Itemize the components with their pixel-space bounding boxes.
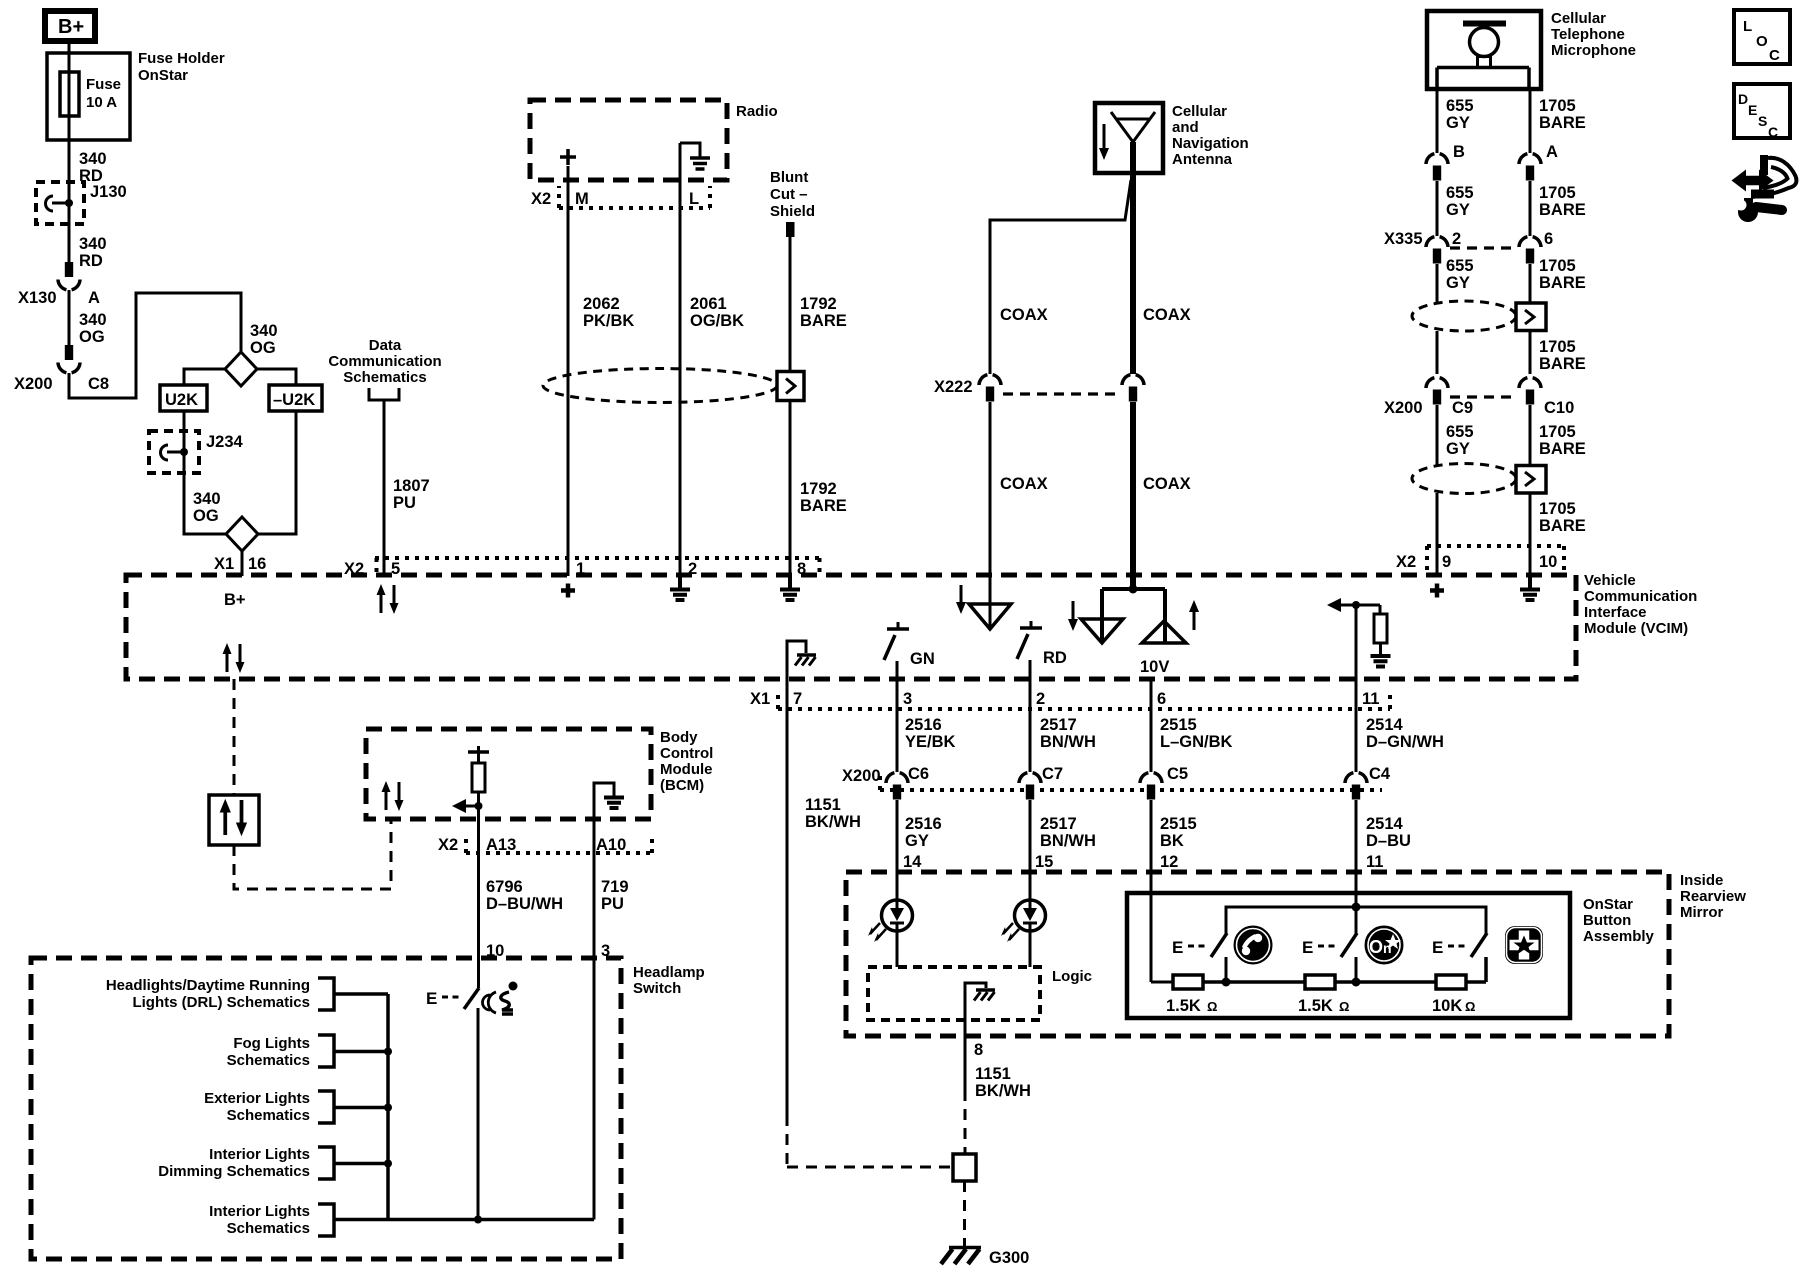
svg-text:1705: 1705: [1539, 97, 1576, 115]
svg-text:719: 719: [601, 878, 629, 896]
svg-text:Body: Body: [660, 729, 698, 746]
svg-text:Shield: Shield: [770, 203, 815, 220]
svg-text:C4: C4: [1369, 765, 1391, 783]
svg-text:and: and: [1172, 119, 1199, 136]
svg-text:1705: 1705: [1539, 338, 1576, 356]
wire 340 OG: [69, 290, 107, 346]
svg-text:Rearview: Rearview: [1680, 888, 1746, 905]
svg-text:Lights (DRL) Schematics: Lights (DRL) Schematics: [132, 994, 310, 1011]
svg-text:L: L: [1743, 18, 1752, 35]
svg-text:Fuse: Fuse: [86, 76, 121, 93]
svg-text:GY: GY: [1446, 440, 1470, 458]
connector X2 BCM pins A13,A10: [438, 835, 652, 854]
svg-text:BN/WH: BN/WH: [1040, 733, 1096, 751]
fuse F 10A: [60, 72, 121, 116]
svg-text:C7: C7: [1042, 765, 1063, 783]
svg-text:2515: 2515: [1160, 716, 1197, 734]
icon phone: [1234, 926, 1272, 964]
svg-text:Mirror: Mirror: [1680, 904, 1724, 921]
wire 719 PU: [594, 853, 629, 1220]
shield drain box mic 1: [1516, 303, 1546, 331]
svg-text:Schematics: Schematics: [343, 369, 426, 386]
wire LED GN to logic: [896, 931, 899, 967]
svg-text:340: 340: [79, 311, 107, 329]
svg-text:2516: 2516: [905, 815, 942, 833]
svg-text:Button: Button: [1583, 912, 1631, 929]
svg-text:X2: X2: [1396, 553, 1416, 571]
svg-text:Schematics: Schematics: [227, 1052, 310, 1069]
svg-text:Fog Lights: Fog Lights: [233, 1035, 310, 1052]
svg-text:C6: C6: [908, 765, 929, 783]
resistor 1.5K second: [1298, 975, 1349, 1015]
fuse holder box: [47, 50, 225, 140]
connector X200 pin C6: [886, 765, 929, 800]
svg-text:B+: B+: [224, 591, 246, 609]
wire 2517 BN/WH lower: [1030, 800, 1096, 900]
wire 655 GY seg3: [1437, 257, 1474, 303]
svg-text:9: 9: [1442, 553, 1451, 571]
VCIM coax junction bar: [1102, 585, 1165, 644]
svg-text:M: M: [575, 190, 589, 208]
svg-text:YE/BK: YE/BK: [905, 733, 956, 751]
svg-text:C10: C10: [1544, 399, 1574, 417]
splice J130: [36, 182, 127, 224]
svg-text:O: O: [1756, 33, 1768, 50]
svg-text:X335: X335: [1384, 230, 1423, 248]
svg-text:E: E: [1432, 938, 1443, 957]
resistor 1.5K first: [1166, 975, 1217, 1015]
wire 2514 D-GN/WH: [1356, 709, 1444, 772]
wire 1705 BARE seg3: [1530, 257, 1586, 303]
VCIM antenna terminal left (down triangle): [969, 604, 1011, 629]
VCIM chassis ground at pin 7: [787, 641, 816, 679]
svg-text:X1: X1: [214, 555, 234, 573]
VCIM + terminal at pin 1: [561, 584, 575, 598]
wire LED RD to logic: [1029, 931, 1032, 967]
svg-text:1.5K: 1.5K: [1298, 997, 1333, 1015]
BCM bidirectional arrows: [382, 781, 404, 811]
svg-text:Cellular: Cellular: [1551, 10, 1606, 27]
svg-text:S: S: [1758, 113, 1767, 129]
wire 1705 BARE seg5: [1530, 405, 1586, 465]
svg-text:BK: BK: [1160, 832, 1184, 850]
svg-text:A13: A13: [486, 836, 516, 854]
svg-text:E: E: [1172, 938, 1183, 957]
svg-text:D: D: [1738, 91, 1748, 107]
wire 1705 BARE seg2: [1530, 181, 1586, 236]
svg-text:B: B: [1453, 143, 1465, 161]
svg-text:340: 340: [193, 490, 221, 508]
splice S1 340 OG: [225, 322, 278, 386]
svg-text:GY: GY: [1446, 274, 1470, 292]
radio + terminal: [560, 149, 576, 165]
schematic ref Interior Lights: [209, 1203, 334, 1237]
svg-text:3: 3: [903, 690, 912, 708]
wire 2514 D-BU: [1356, 800, 1411, 934]
dashed wire B+ to interface box: [233, 679, 236, 795]
svg-text:B+: B+: [58, 16, 84, 38]
svg-text:1705: 1705: [1539, 423, 1576, 441]
svg-text:X222: X222: [934, 378, 973, 396]
svg-text:GY: GY: [1446, 201, 1470, 219]
connector X200 pin C5: [1140, 765, 1188, 800]
svg-text:OG: OG: [193, 507, 219, 525]
coax wire left lower: [990, 402, 1048, 629]
connector X1 row: [750, 690, 1390, 709]
wire 2062 PK/BK: [568, 166, 634, 576]
svg-text:11: 11: [1362, 690, 1379, 708]
schematic ref Interior Lights Dimming: [158, 1146, 388, 1180]
radio box: [530, 100, 778, 180]
svg-text:E: E: [1748, 102, 1757, 118]
antenna module box: [1095, 103, 1249, 173]
svg-text:BARE: BARE: [1539, 440, 1586, 458]
svg-text:1705: 1705: [1539, 184, 1576, 202]
logic box: [868, 967, 1092, 1020]
svg-text:2514: 2514: [1366, 716, 1404, 734]
svg-text:COAX: COAX: [1000, 306, 1048, 324]
connector X335 pin 6: [1450, 230, 1553, 264]
wire S2 to VCIM X1-16: [214, 551, 266, 576]
svg-text:Antenna: Antenna: [1172, 151, 1233, 168]
svg-text:Interface: Interface: [1584, 604, 1647, 621]
svg-text:BARE: BARE: [800, 497, 847, 515]
dashed wire 1151 left branch: [787, 1115, 953, 1167]
VCIM + terminal at pin 9: [1430, 584, 1444, 598]
svg-text:Navigation: Navigation: [1172, 135, 1249, 152]
svg-text:BARE: BARE: [800, 312, 847, 330]
svg-text:A: A: [1546, 143, 1558, 161]
svg-text:L: L: [689, 190, 699, 208]
connector X200 pin C9: [1384, 378, 1473, 417]
svg-text:10: 10: [1539, 553, 1557, 571]
connector X200 pin C7: [1019, 765, 1063, 800]
wire 2515 BK: [1151, 800, 1197, 982]
svg-text:2: 2: [1036, 690, 1045, 708]
svg-text:Communication: Communication: [1584, 588, 1697, 605]
radio internal ground: [680, 143, 710, 169]
LED indicator GN: [868, 900, 913, 942]
shield drain box: [777, 372, 804, 401]
wire 6796 D-BU/WH: [479, 853, 564, 988]
wire splice to U2K: [184, 369, 225, 385]
wire GN to pin 3: [896, 661, 899, 709]
wire 1705 BARE seg6: [1530, 493, 1586, 576]
VCIM RD output symbol: [1017, 621, 1067, 667]
connector X2 row (pins 5,1,2,8): [344, 558, 821, 578]
svg-text:D–GN/WH: D–GN/WH: [1366, 733, 1444, 751]
VCIM bidirectional arrows at B+: [223, 643, 245, 673]
svg-text:340: 340: [79, 150, 107, 168]
icon LOC box: [1734, 10, 1790, 64]
svg-text:–U2K: –U2K: [273, 391, 315, 409]
wire 2515 L-GN/BK: [1151, 709, 1233, 772]
svg-text:COAX: COAX: [1000, 475, 1048, 493]
splice S2: [226, 517, 258, 551]
net label -U2K: [269, 385, 322, 411]
icon repair arrow: [1732, 155, 1797, 199]
shield ellipse mic 2: [1412, 464, 1516, 494]
svg-text:Telephone: Telephone: [1551, 26, 1625, 43]
wire 2516 GY: [897, 800, 942, 900]
svg-text:GY: GY: [1446, 114, 1470, 132]
svg-text:2: 2: [1452, 230, 1461, 248]
svg-text:Ω: Ω: [1207, 999, 1217, 1014]
button top rail: [1226, 903, 1486, 935]
switch SW3 emergency: [1432, 933, 1487, 982]
VCIM down arrow left: [956, 585, 966, 614]
dashed wire interface box to BCM: [234, 819, 391, 889]
svg-text:655: 655: [1446, 184, 1474, 202]
svg-text:1151: 1151: [975, 1065, 1011, 1083]
svg-text:2517: 2517: [1040, 716, 1077, 734]
svg-text:Cut –: Cut –: [770, 186, 808, 203]
svg-text:14: 14: [903, 853, 922, 871]
svg-text:Cellular: Cellular: [1172, 103, 1227, 120]
svg-text:D–BU: D–BU: [1366, 832, 1411, 850]
VCIM GN output symbol: [884, 622, 935, 668]
OnStar button assembly box: [1127, 893, 1655, 1018]
svg-text:Data: Data: [369, 337, 402, 354]
VCIM up arrow: [1189, 600, 1199, 630]
microphone symbol: [1437, 21, 1529, 90]
connector pin A: [1519, 143, 1558, 181]
svg-text:Module (VCIM): Module (VCIM): [1584, 620, 1688, 637]
svg-text:2515: 2515: [1160, 815, 1197, 833]
svg-text:16: 16: [248, 555, 266, 573]
svg-text:1792: 1792: [800, 480, 837, 498]
BCM module border: [366, 729, 713, 819]
connector X222 right: [934, 375, 1144, 402]
shield ellipse around radio wires: [543, 369, 777, 403]
svg-text:2516: 2516: [905, 716, 942, 734]
svg-text:RD: RD: [79, 252, 103, 270]
svg-text:COAX: COAX: [1143, 306, 1191, 324]
svg-text:BARE: BARE: [1539, 201, 1586, 219]
wire 655 GY seg5: [1437, 405, 1474, 465]
svg-text:Ω: Ω: [1465, 999, 1475, 1014]
svg-text:2517: 2517: [1040, 815, 1077, 833]
svg-text:C: C: [1769, 47, 1780, 64]
schematic ref Exterior Lights: [204, 1090, 388, 1124]
schematic reference Data Communication Schematics: [328, 337, 441, 400]
shield ellipse mic 1: [1412, 301, 1516, 331]
svg-text:1705: 1705: [1539, 257, 1576, 275]
svg-text:Vehicle: Vehicle: [1584, 572, 1636, 589]
BCM ground at A10: [594, 783, 624, 853]
svg-text:2514: 2514: [1366, 815, 1404, 833]
schematic ref Headlights/DRL: [106, 977, 388, 1011]
svg-text:X2: X2: [438, 836, 458, 854]
svg-text:G300: G300: [989, 1249, 1029, 1267]
net label U2K: [160, 385, 207, 411]
wire 655 GY seg4: [1436, 331, 1439, 374]
wire RD to pin 2: [1029, 660, 1032, 709]
svg-text:2061: 2061: [690, 295, 727, 313]
bottom rail seg2: [1335, 978, 1436, 987]
svg-text:OnStar: OnStar: [1583, 896, 1633, 913]
antenna symbol: [1111, 112, 1155, 142]
resistor 10K: [1432, 975, 1475, 1015]
svg-text:Inside: Inside: [1680, 872, 1723, 889]
VCIM antenna terminal (up triangle) 10V: [1140, 621, 1186, 676]
svg-text:X200: X200: [842, 767, 881, 785]
svg-text:Logic: Logic: [1052, 968, 1092, 985]
wire 340 RD upper: [69, 140, 107, 185]
svg-text:Blunt: Blunt: [770, 169, 808, 186]
svg-text:7: 7: [793, 690, 802, 708]
shield drain box mic 2: [1516, 466, 1546, 494]
svg-text:GN: GN: [910, 650, 935, 668]
battery feed B+ box: [45, 11, 95, 41]
svg-text:GY: GY: [905, 832, 929, 850]
button box left wire pin 12: [1151, 981, 1173, 984]
svg-text:O: O: [1369, 937, 1383, 957]
svg-text:1807: 1807: [393, 477, 430, 495]
svg-text:Ω: Ω: [1339, 999, 1349, 1014]
switch SW2 onstar: [1302, 907, 1357, 982]
cellular telephone microphone box: [1427, 10, 1636, 89]
headlamp switch horn icon: [483, 982, 518, 1015]
wire 1151 BK/WH pin 8: [965, 1020, 1031, 1154]
VCIM ground at pin 8: [780, 576, 800, 600]
svg-text:BK/WH: BK/WH: [805, 813, 861, 831]
svg-text:Module: Module: [660, 761, 713, 778]
connector X200 pin C4: [1345, 765, 1391, 800]
svg-text:1.5K: 1.5K: [1166, 997, 1201, 1015]
svg-text:Control: Control: [660, 745, 713, 762]
connector X2 radio pins M,L: [531, 186, 710, 208]
VCIM bidirectional arrows at pin 5: [377, 584, 399, 614]
bottom rail seg1: [1203, 978, 1305, 987]
headlamp bus wire: [334, 994, 594, 1224]
svg-text:X130: X130: [18, 289, 57, 307]
svg-text:OG: OG: [250, 339, 276, 357]
wire C8 to splice S1: [69, 293, 241, 398]
svg-text:Interior Lights: Interior Lights: [209, 1146, 310, 1163]
connector X200 row ticks: [842, 767, 1382, 790]
svg-text:BARE: BARE: [1539, 274, 1586, 292]
svg-text:PU: PU: [601, 895, 624, 913]
wire 2061 OG/BK: [680, 143, 744, 576]
inside rearview mirror border: [846, 872, 1746, 1036]
svg-text:10K: 10K: [1432, 997, 1462, 1015]
wire 10V to pin 6: [1150, 679, 1153, 709]
svg-text:Headlights/Daytime Running: Headlights/Daytime Running: [106, 977, 310, 994]
svg-text:BN/WH: BN/WH: [1040, 832, 1096, 850]
connector X130 pin A: [18, 262, 100, 307]
wire B+ to fuse holder: [68, 41, 71, 140]
svg-text:E: E: [426, 989, 437, 1008]
svg-text:X200: X200: [1384, 399, 1423, 417]
svg-text:340: 340: [79, 235, 107, 253]
svg-text:6796: 6796: [486, 878, 523, 896]
svg-text:A10: A10: [596, 836, 626, 854]
svg-text:12: 12: [1160, 853, 1178, 871]
svg-text:E: E: [1302, 938, 1313, 957]
svg-text:RD: RD: [1043, 649, 1067, 667]
dashed wire to G300: [963, 1181, 966, 1246]
coax wire right lower: [1133, 402, 1191, 588]
interface arrows box: [209, 795, 259, 845]
svg-text:COAX: COAX: [1143, 475, 1191, 493]
svg-text:C9: C9: [1452, 399, 1473, 417]
svg-text:Schematics: Schematics: [227, 1220, 310, 1237]
svg-text:1151: 1151: [805, 796, 841, 814]
svg-text:OG: OG: [79, 328, 105, 346]
svg-text:PU: PU: [393, 494, 416, 512]
svg-text:X2: X2: [531, 190, 551, 208]
wire pin 11 crossing: [1355, 605, 1358, 709]
svg-text:BARE: BARE: [1539, 517, 1586, 535]
headlamp switch contact: [426, 988, 479, 1220]
connector X200 pin C10: [1450, 378, 1574, 417]
connector X2 pins 9,10: [1396, 546, 1564, 571]
wire 655 GY seg6: [1436, 493, 1439, 576]
antenna box down arrow: [1099, 124, 1109, 160]
svg-text:1705: 1705: [1539, 500, 1576, 518]
splice J234: [149, 411, 244, 473]
svg-text:10V: 10V: [1140, 658, 1169, 676]
blunt cut shield wire 1792 BARE: [770, 169, 847, 576]
svg-text:Headlamp: Headlamp: [633, 964, 705, 981]
svg-text:Radio: Radio: [736, 103, 778, 120]
svg-text:Exterior Lights: Exterior Lights: [204, 1090, 310, 1107]
connector X335 pin 2: [1384, 230, 1461, 264]
wire 340 OG to splice S2: [184, 473, 226, 534]
svg-text:Switch: Switch: [633, 980, 681, 997]
svg-text:Interior Lights: Interior Lights: [209, 1203, 310, 1220]
svg-text:D–BU/WH: D–BU/WH: [486, 895, 563, 913]
svg-text:655: 655: [1446, 257, 1474, 275]
svg-text:655: 655: [1446, 423, 1474, 441]
connector pin B: [1426, 143, 1465, 181]
svg-text:Communication: Communication: [328, 353, 441, 370]
svg-text:L–GN/BK: L–GN/BK: [1160, 733, 1233, 751]
svg-text:Microphone: Microphone: [1551, 42, 1636, 59]
VCIM output arrow and resistor at pin 11: [1327, 598, 1391, 667]
VCIM ground at pin 2: [670, 576, 690, 600]
svg-text:J234: J234: [206, 433, 244, 451]
svg-text:PK/BK: PK/BK: [583, 312, 634, 330]
svg-text:Assembly: Assembly: [1583, 928, 1655, 945]
svg-text:C: C: [1768, 124, 1778, 140]
node B+ label inside VCIM: [224, 591, 246, 609]
wire 1151 BK/WH left: [787, 709, 861, 1115]
svg-text:BK/WH: BK/WH: [975, 1082, 1031, 1100]
svg-text:Dimming Schematics: Dimming Schematics: [158, 1163, 310, 1180]
icon OnStar: [1365, 926, 1403, 964]
svg-text:A: A: [88, 289, 100, 307]
svg-text:2062: 2062: [583, 295, 620, 313]
logic chassis ground: [965, 983, 995, 1020]
wire pin 7 crossing: [786, 679, 789, 709]
icon DESC box: [1734, 84, 1790, 140]
svg-text:BARE: BARE: [1539, 355, 1586, 373]
coax wire right upper: [1133, 142, 1191, 374]
wire splice to -U2K: [257, 369, 296, 385]
wire 1807 PU: [384, 400, 430, 576]
connector X222 left: [979, 375, 1001, 402]
svg-text:(BCM): (BCM): [660, 777, 704, 794]
headlamp switch module border: [31, 958, 705, 1259]
VCIM antenna terminal (down triangle): [1081, 619, 1123, 643]
svg-text:X200: X200: [14, 375, 53, 393]
svg-text:6: 6: [1544, 230, 1553, 248]
svg-text:8: 8: [974, 1041, 983, 1059]
splice box S300: [953, 1154, 976, 1181]
icon emergency cross: [1505, 926, 1543, 964]
